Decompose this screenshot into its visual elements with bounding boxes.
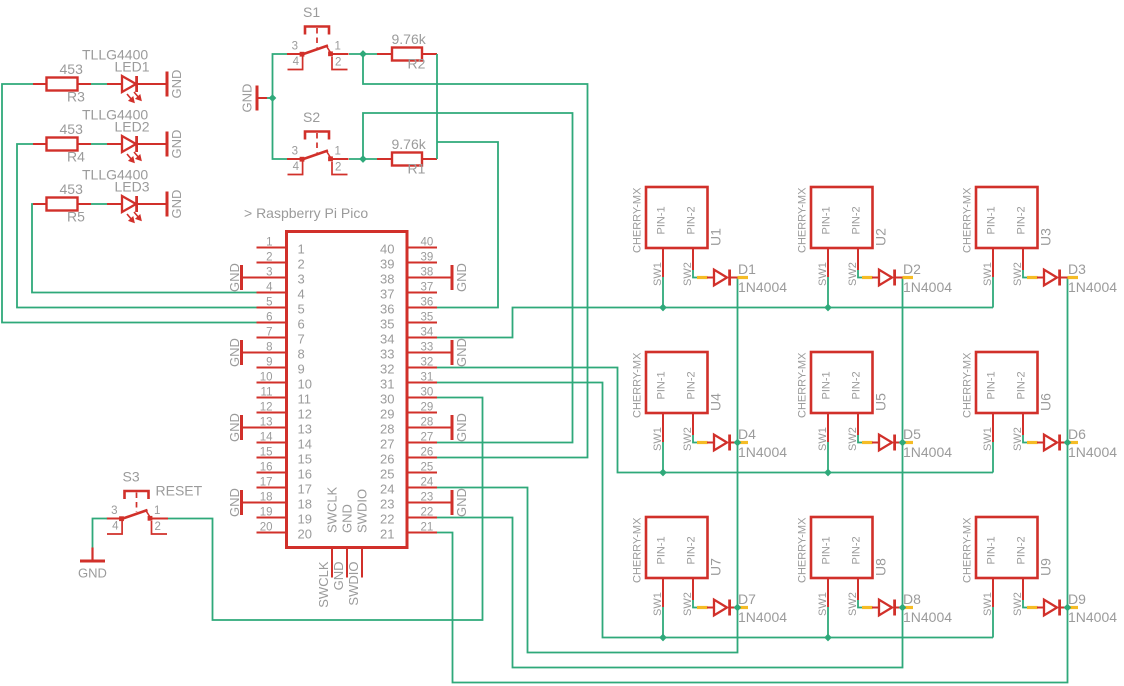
keyswitch U1 (CHERRY-MX) — [646, 187, 708, 277]
svg-text:33: 33 — [380, 347, 394, 362]
keyswitch U3 (CHERRY-MX) — [976, 187, 1038, 277]
wire S to R2 — [349, 53, 377, 55]
pin GND (Pico bottom) — [346, 548, 348, 578]
ground symbol (Pico pin 23) — [437, 490, 454, 515]
svg-text:U1: U1 — [708, 228, 724, 246]
svg-text:R1: R1 — [408, 161, 426, 177]
diode D5 (1N4004) — [862, 435, 913, 451]
svg-text:GND: GND — [227, 413, 242, 442]
svg-text:35: 35 — [421, 312, 434, 324]
wire net 3V3 to Pico pin 36 — [437, 142, 498, 308]
svg-text:29: 29 — [380, 407, 394, 422]
svg-text:19: 19 — [298, 512, 312, 527]
svg-text:PIN-1: PIN-1 — [821, 371, 833, 399]
pin 5 (Pico) — [257, 297, 287, 309]
wire SW2 U1 to diode D1 — [693, 270, 697, 278]
svg-text:33: 33 — [421, 342, 434, 354]
svg-text:D1: D1 — [738, 261, 756, 277]
pin 29 (Pico) — [407, 402, 437, 414]
diode D9 (1N4004) — [1027, 600, 1078, 616]
svg-text:2: 2 — [335, 162, 341, 174]
wire SW1 U1 to row — [662, 277, 664, 308]
svg-text:4: 4 — [293, 161, 300, 173]
ground symbol (Pico pin 8) — [240, 340, 257, 365]
wire SW1 U4 to row — [662, 442, 664, 473]
svg-text:1: 1 — [154, 505, 160, 517]
svg-text:14: 14 — [260, 432, 273, 444]
svg-text:12: 12 — [260, 402, 273, 414]
svg-text:1N4004: 1N4004 — [738, 609, 787, 625]
pin 4 (Pico) — [257, 282, 287, 294]
wire S3 to GND — [93, 519, 108, 549]
pin 39 (Pico) — [407, 252, 437, 264]
LED LED2 — [107, 136, 166, 162]
svg-text:S3: S3 — [123, 469, 140, 485]
pin 26 (Pico) — [407, 447, 437, 459]
svg-text:453: 453 — [60, 181, 84, 197]
keyswitch U9 (CHERRY-MX) — [976, 517, 1038, 607]
svg-text:GND: GND — [227, 338, 242, 367]
ground symbol (S1/S2) — [256, 86, 268, 111]
svg-text:CHERRY-MX: CHERRY-MX — [962, 352, 974, 418]
junction (COL2 y=607.5) — [899, 604, 907, 612]
svg-text:PIN-1: PIN-1 — [656, 206, 668, 234]
diode D1 (1N4004) — [697, 270, 748, 286]
keyswitch U5 (CHERRY-MX) — [811, 352, 873, 442]
svg-text:PIN-2: PIN-2 — [686, 536, 698, 564]
svg-text:25: 25 — [380, 467, 394, 482]
ground symbol (S3) — [80, 548, 105, 563]
svg-text:4: 4 — [298, 287, 305, 302]
svg-text:PIN-1: PIN-1 — [986, 206, 998, 234]
pin 8 (Pico) — [257, 342, 287, 354]
junction (GND/S1/S2) — [269, 94, 277, 102]
ground symbol (Pico pin 18) — [240, 490, 257, 515]
pin 13 (Pico) — [257, 417, 287, 429]
keyswitch U4 (CHERRY-MX) — [646, 352, 708, 442]
pin 31 (Pico) — [407, 372, 437, 384]
pin 27 (Pico) — [407, 432, 437, 444]
wire net LED3 (Pico to R5) — [32, 204, 257, 293]
svg-text:PIN-1: PIN-1 — [656, 536, 668, 564]
svg-text:9: 9 — [266, 357, 272, 369]
wire net 3V3 (R2/R1 pullups) — [436, 54, 438, 159]
svg-text:9: 9 — [298, 362, 305, 377]
svg-text:1N4004: 1N4004 — [1068, 279, 1117, 295]
svg-text:1N4004: 1N4004 — [1068, 609, 1117, 625]
svg-text:19: 19 — [260, 507, 273, 519]
junction (ROW2 x=663) — [659, 469, 667, 477]
pin 37 (Pico) — [407, 282, 437, 294]
svg-text:LED1: LED1 — [115, 59, 150, 75]
wire SW1 U6 to row — [992, 442, 994, 473]
keyswitch U2 (CHERRY-MX) — [811, 187, 873, 277]
svg-text:U2: U2 — [873, 228, 889, 246]
svg-text:27: 27 — [421, 432, 434, 444]
svg-text:4: 4 — [112, 521, 119, 533]
pin 24 (Pico) — [407, 477, 437, 489]
junction (S2/R1) — [359, 155, 367, 163]
svg-text:PIN-1: PIN-1 — [821, 536, 833, 564]
pin 16 (Pico) — [257, 462, 287, 474]
pin 28 (Pico) — [407, 417, 437, 429]
svg-text:D5: D5 — [903, 426, 921, 442]
resistor R2 — [377, 48, 437, 61]
wire R3 to LED1 — [91, 83, 107, 85]
svg-text:CHERRY-MX: CHERRY-MX — [962, 187, 974, 253]
wire S to R1 — [349, 158, 377, 160]
svg-text:25: 25 — [421, 462, 434, 474]
svg-text:CHERRY-MX: CHERRY-MX — [797, 352, 809, 418]
svg-text:6: 6 — [266, 312, 272, 324]
pin 7 (Pico) — [257, 327, 287, 339]
resistor R5 — [33, 198, 91, 211]
switch S1 — [287, 27, 349, 70]
svg-text:PIN-2: PIN-2 — [686, 206, 698, 234]
wire SW2 U8 to diode D8 — [858, 600, 862, 608]
svg-text:S2: S2 — [303, 109, 320, 125]
svg-text:2: 2 — [266, 252, 272, 264]
svg-text:D4: D4 — [738, 426, 756, 442]
svg-text:PIN-1: PIN-1 — [986, 536, 998, 564]
svg-text:26: 26 — [380, 452, 394, 467]
svg-text:5: 5 — [266, 297, 272, 309]
svg-text:GND: GND — [454, 413, 469, 442]
svg-text:12: 12 — [298, 407, 312, 422]
svg-text:31: 31 — [380, 377, 394, 392]
wire SW1 U3 to row — [992, 277, 994, 308]
svg-text:453: 453 — [60, 61, 84, 77]
svg-text:CHERRY-MX: CHERRY-MX — [797, 187, 809, 253]
svg-text:PIN-2: PIN-2 — [1016, 536, 1028, 564]
svg-text:PIN-1: PIN-1 — [821, 206, 833, 234]
ground symbol (Pico pin 13) — [240, 415, 257, 440]
pin 2 (Pico) — [257, 252, 287, 264]
switch S2 — [287, 132, 349, 175]
pin 30 (Pico) — [407, 387, 437, 399]
wire net S2 to Pico pin 27 — [363, 113, 573, 443]
pin 12 (Pico) — [257, 402, 287, 414]
svg-text:D6: D6 — [1068, 426, 1086, 442]
wire SW2 U3 to diode D3 — [1023, 270, 1027, 278]
svg-text:PIN-2: PIN-2 — [851, 536, 863, 564]
pin 18 (Pico) — [257, 492, 287, 504]
svg-text:SWCLK: SWCLK — [316, 561, 331, 608]
svg-text:3: 3 — [266, 267, 272, 279]
svg-text:D9: D9 — [1068, 591, 1086, 607]
junction (ROW3 x=663) — [659, 634, 667, 642]
wire net LED2 (Pico to R4) — [17, 144, 257, 308]
pin SWDIO (Pico bottom) — [361, 548, 363, 578]
svg-text:PIN-2: PIN-2 — [851, 206, 863, 234]
svg-text:U8: U8 — [873, 558, 889, 576]
svg-text:24: 24 — [380, 482, 394, 497]
svg-text:GND: GND — [454, 263, 469, 292]
svg-text:PIN-2: PIN-2 — [851, 371, 863, 399]
pin 38 (Pico) — [407, 267, 437, 279]
svg-text:36: 36 — [380, 302, 394, 317]
pin 11 (Pico) — [257, 387, 287, 399]
junction (COL2 y=442.5) — [899, 439, 907, 447]
wire net ROW3 (Pico pin 31) — [437, 383, 993, 638]
svg-text:28: 28 — [380, 422, 394, 437]
wire SW1 U7 to row — [662, 607, 664, 638]
svg-text:24: 24 — [421, 477, 434, 489]
pin 23 (Pico) — [407, 492, 437, 504]
wire SW2 U6 to diode D6 — [1023, 435, 1027, 443]
svg-text:GND: GND — [227, 488, 242, 517]
svg-text:CHERRY-MX: CHERRY-MX — [632, 517, 644, 583]
svg-text:22: 22 — [380, 512, 394, 527]
svg-text:1: 1 — [335, 41, 341, 53]
svg-text:SWDIO: SWDIO — [346, 562, 361, 606]
svg-text:R2: R2 — [408, 56, 426, 72]
svg-text:22: 22 — [421, 507, 434, 519]
svg-text:U6: U6 — [1038, 393, 1054, 411]
pin 40 (Pico) — [407, 237, 437, 249]
wire net LED1 (Pico to R3) — [2, 84, 257, 323]
svg-text:13: 13 — [298, 422, 312, 437]
IC Raspberry Pi Pico outline — [287, 232, 408, 548]
junction (COL3 y=607.5) — [1064, 604, 1072, 612]
wire net COL1 (Pico pin 24) — [437, 278, 738, 653]
svg-text:26: 26 — [421, 447, 434, 459]
svg-text:21: 21 — [421, 522, 434, 534]
svg-text:18: 18 — [260, 492, 273, 504]
svg-text:20: 20 — [298, 527, 312, 542]
svg-text:U9: U9 — [1038, 558, 1054, 576]
svg-text:PIN-1: PIN-1 — [656, 371, 668, 399]
svg-text:CHERRY-MX: CHERRY-MX — [632, 352, 644, 418]
svg-text:PIN-1: PIN-1 — [986, 371, 998, 399]
svg-text:15: 15 — [260, 447, 273, 459]
wire net S1 to Pico pin 26 — [363, 54, 588, 458]
resistor R4 — [33, 138, 91, 151]
svg-text:CHERRY-MX: CHERRY-MX — [962, 517, 974, 583]
svg-text:GND: GND — [454, 488, 469, 517]
svg-text:34: 34 — [380, 332, 394, 347]
ground symbol (LED2) — [166, 132, 169, 157]
pin 36 (Pico) — [407, 297, 437, 309]
junction (ROW1 x=828) — [824, 304, 832, 312]
svg-text:LED2: LED2 — [115, 119, 150, 135]
svg-text:11: 11 — [298, 392, 312, 407]
svg-text:27: 27 — [380, 437, 394, 452]
svg-text:29: 29 — [421, 402, 434, 414]
svg-text:8: 8 — [298, 347, 305, 362]
pin 34 (Pico) — [407, 327, 437, 339]
svg-text:R5: R5 — [67, 209, 85, 225]
svg-text:3: 3 — [111, 505, 117, 517]
ground symbol (LED3) — [166, 192, 169, 217]
svg-text:R4: R4 — [67, 149, 85, 165]
ground symbol (Pico pin 38) — [437, 265, 454, 290]
svg-text:9.76k: 9.76k — [392, 136, 427, 152]
svg-text:3: 3 — [292, 41, 298, 53]
svg-text:RESET: RESET — [156, 483, 203, 499]
svg-text:8: 8 — [266, 342, 272, 354]
svg-text:453: 453 — [60, 121, 84, 137]
keyswitch U6 (CHERRY-MX) — [976, 352, 1038, 442]
svg-text:D2: D2 — [903, 261, 921, 277]
wire R5 to LED3 — [91, 203, 107, 205]
svg-text:40: 40 — [421, 237, 434, 249]
LED LED3 — [107, 196, 166, 222]
pin 25 (Pico) — [407, 462, 437, 474]
svg-text:1: 1 — [266, 237, 272, 249]
junction (ROW2 x=828) — [824, 469, 832, 477]
svg-text:GND: GND — [169, 70, 184, 99]
svg-text:9.76k: 9.76k — [392, 31, 427, 47]
junction (COL3 y=442.5) — [1064, 439, 1072, 447]
svg-text:CHERRY-MX: CHERRY-MX — [632, 187, 644, 253]
svg-text:GND: GND — [169, 190, 184, 219]
resistor R1 — [377, 153, 437, 166]
svg-text:23: 23 — [380, 497, 394, 512]
svg-text:17: 17 — [260, 477, 273, 489]
svg-text:PIN-2: PIN-2 — [1016, 371, 1028, 399]
svg-text:GND: GND — [169, 130, 184, 159]
svg-text:2: 2 — [335, 57, 341, 69]
ground symbol (Pico pin 28) — [437, 415, 454, 440]
svg-text:7: 7 — [266, 327, 272, 339]
pin 17 (Pico) — [257, 477, 287, 489]
svg-text:3: 3 — [292, 146, 298, 158]
svg-text:36: 36 — [421, 297, 434, 309]
diode D7 (1N4004) — [697, 600, 748, 616]
svg-text:D8: D8 — [903, 591, 921, 607]
wire net RESET (S3 to Pico pin 30) — [168, 398, 483, 621]
svg-text:2: 2 — [155, 521, 161, 533]
svg-text:18: 18 — [298, 497, 312, 512]
svg-text:R3: R3 — [67, 89, 85, 105]
wire GND to S1/S2 — [273, 54, 288, 159]
svg-text:1: 1 — [298, 242, 305, 257]
diode D2 (1N4004) — [862, 270, 913, 286]
svg-text:GND: GND — [331, 562, 346, 591]
wire SW1 U2 to row — [827, 277, 829, 308]
diode D4 (1N4004) — [697, 435, 748, 451]
svg-text:U5: U5 — [873, 393, 889, 411]
svg-text:34: 34 — [421, 327, 434, 339]
svg-text:PIN-2: PIN-2 — [686, 371, 698, 399]
pin 33 (Pico) — [407, 342, 437, 354]
svg-text:10: 10 — [260, 372, 273, 384]
svg-text:2: 2 — [298, 257, 305, 272]
svg-text:21: 21 — [380, 527, 394, 542]
wire SW2 U4 to diode D4 — [693, 435, 697, 443]
switch S3 — [107, 491, 169, 534]
ground symbol (Pico pin 33) — [437, 340, 454, 365]
svg-text:U7: U7 — [708, 558, 724, 576]
svg-text:SWCLK: SWCLK — [325, 486, 340, 533]
svg-text:13: 13 — [260, 417, 273, 429]
wire GND spur — [267, 97, 273, 99]
pin 35 (Pico) — [407, 312, 437, 324]
pin 32 (Pico) — [407, 357, 437, 369]
svg-text:7: 7 — [298, 332, 305, 347]
wire SW1 U8 to row — [827, 607, 829, 638]
svg-text:17: 17 — [298, 482, 312, 497]
svg-text:32: 32 — [421, 357, 434, 369]
svg-text:39: 39 — [421, 252, 434, 264]
svg-text:31: 31 — [421, 372, 434, 384]
svg-text:LED3: LED3 — [115, 179, 150, 195]
wire net ROW1 (Pico pin 34) — [437, 308, 993, 338]
junction (ROW3 x=828) — [824, 634, 832, 642]
keyswitch U7 (CHERRY-MX) — [646, 517, 708, 607]
svg-text:GND: GND — [454, 338, 469, 367]
svg-text:PIN-2: PIN-2 — [1016, 206, 1028, 234]
svg-text:38: 38 — [421, 267, 434, 279]
svg-text:1N4004: 1N4004 — [903, 609, 952, 625]
pin 15 (Pico) — [257, 447, 287, 459]
svg-text:35: 35 — [380, 317, 394, 332]
junction (COL1 y=442.5) — [734, 439, 742, 447]
svg-text:20: 20 — [260, 522, 273, 534]
svg-text:1N4004: 1N4004 — [1068, 444, 1117, 460]
pin 22 (Pico) — [407, 507, 437, 519]
svg-text:23: 23 — [421, 492, 434, 504]
LED LED1 — [107, 76, 166, 102]
diode D3 (1N4004) — [1027, 270, 1078, 286]
svg-text:GND: GND — [78, 566, 107, 581]
pin 20 (Pico) — [257, 522, 287, 534]
svg-text:S1: S1 — [303, 4, 320, 20]
keyswitch U8 (CHERRY-MX) — [811, 517, 873, 607]
wire net COL2 (Pico pin 22) — [437, 278, 903, 668]
svg-text:GND: GND — [227, 263, 242, 292]
pin 19 (Pico) — [257, 507, 287, 519]
svg-text:37: 37 — [380, 287, 394, 302]
junction (COL1 y=607.5) — [734, 604, 742, 612]
pin 1 (Pico) — [257, 237, 287, 249]
svg-text:D3: D3 — [1068, 261, 1086, 277]
diode D6 (1N4004) — [1027, 435, 1078, 451]
pin 3 (Pico) — [257, 267, 287, 279]
svg-text:32: 32 — [380, 362, 394, 377]
svg-text:28: 28 — [421, 417, 434, 429]
svg-text:6: 6 — [298, 317, 305, 332]
svg-text:16: 16 — [298, 467, 312, 482]
ground symbol (LED1) — [166, 72, 169, 97]
svg-text:U3: U3 — [1038, 228, 1054, 246]
wire net COL3 (Pico pin 21) — [437, 278, 1068, 683]
wire R4 to LED2 — [91, 143, 107, 145]
svg-text:> Raspberry Pi Pico: > Raspberry Pi Pico — [244, 205, 368, 221]
ground symbol (Pico pin 3) — [240, 265, 257, 290]
svg-text:SWDIO: SWDIO — [355, 489, 370, 533]
svg-text:1N4004: 1N4004 — [738, 444, 787, 460]
svg-text:1: 1 — [335, 146, 341, 158]
svg-text:38: 38 — [380, 272, 394, 287]
svg-text:39: 39 — [380, 257, 394, 272]
svg-text:CHERRY-MX: CHERRY-MX — [797, 517, 809, 583]
svg-text:30: 30 — [421, 387, 434, 399]
junction (S1/R2) — [359, 50, 367, 58]
svg-text:14: 14 — [298, 437, 312, 452]
svg-text:1N4004: 1N4004 — [738, 279, 787, 295]
svg-text:16: 16 — [260, 462, 273, 474]
svg-text:11: 11 — [261, 387, 273, 399]
wire SW2 U2 to diode D2 — [858, 270, 862, 278]
pin 9 (Pico) — [257, 357, 287, 369]
svg-text:37: 37 — [421, 282, 434, 294]
svg-text:5: 5 — [298, 302, 305, 317]
svg-text:1N4004: 1N4004 — [903, 444, 952, 460]
svg-text:10: 10 — [298, 377, 312, 392]
svg-text:GND: GND — [340, 504, 355, 533]
